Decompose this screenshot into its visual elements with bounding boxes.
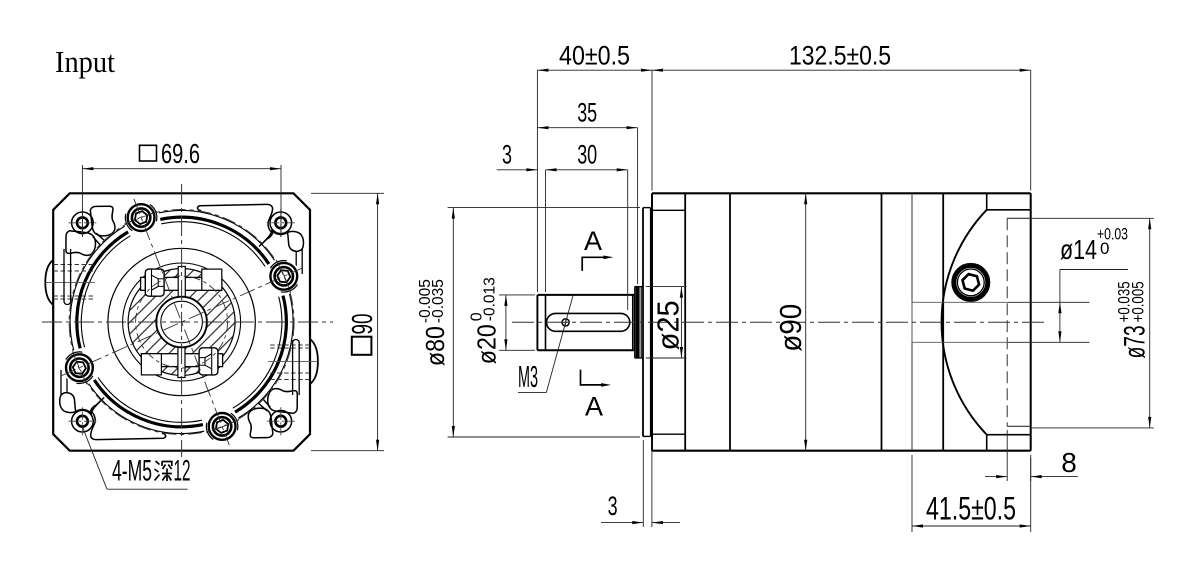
svg-text:ø73: ø73 bbox=[1119, 325, 1152, 358]
top-right corner wing pocket bbox=[197, 204, 272, 246]
svg-text:ø20: ø20 bbox=[472, 324, 502, 364]
svg-text:132.5±0.5: 132.5±0.5 bbox=[789, 41, 891, 71]
flange inner step lines bbox=[652, 209, 685, 211]
top-right corner hole centerlines bbox=[267, 222, 295, 224]
svg-text:0: 0 bbox=[1100, 239, 1109, 258]
svg-text:40±0.5: 40±0.5 bbox=[559, 41, 630, 71]
bottom-left corner counterbore bbox=[72, 410, 94, 432]
svg-text:A: A bbox=[585, 392, 603, 422]
keyway slot bbox=[547, 313, 630, 331]
socket screw at -24 deg bbox=[267, 260, 300, 293]
rear pilot spigot dia 73 bbox=[1006, 218, 1008, 426]
right side lug bbox=[311, 340, 318, 384]
dimension dia 90 bbox=[805, 193, 807, 450]
dimension 69.6 square bbox=[81, 165, 83, 237]
svg-text:A: A bbox=[584, 226, 602, 256]
svg-text:M3: M3 bbox=[518, 359, 538, 394]
dimension dia 20 bbox=[499, 294, 535, 296]
svg-text:12: 12 bbox=[174, 455, 191, 488]
bottom-right corner hole centerlines bbox=[267, 420, 295, 422]
bolt circle centerline bbox=[69, 210, 294, 435]
M3 leader line bbox=[546, 296, 573, 393]
dimension dia 14 bbox=[1008, 301, 1090, 303]
socket screw at 68 deg bbox=[206, 410, 239, 443]
dimension 3 (pilot) bbox=[642, 440, 644, 527]
socket screw at 155 deg bbox=[63, 351, 96, 384]
dimension 40±0.5 bbox=[536, 70, 538, 292]
dimension dia 73 bbox=[1031, 217, 1154, 219]
svg-text:ø25: ø25 bbox=[651, 300, 686, 350]
svg-text:ø14: ø14 bbox=[1060, 234, 1097, 265]
rear cover step top bbox=[986, 193, 988, 210]
upper gear key block bbox=[141, 277, 222, 290]
dimension 90 square (right) bbox=[311, 192, 384, 194]
svg-text:4-M5: 4-M5 bbox=[112, 455, 152, 488]
shaft end face lines bbox=[632, 295, 634, 350]
inner bore circle bbox=[161, 301, 203, 343]
M3 tapped hole bbox=[562, 319, 569, 326]
svg-text:90: 90 bbox=[347, 314, 379, 335]
left side lug bbox=[45, 261, 52, 305]
diagonal centerlines through screws bbox=[61, 268, 302, 376]
svg-text:Input: Input bbox=[55, 44, 115, 79]
left lug clamp slot bbox=[64, 249, 71, 305]
body section joints bbox=[684, 193, 686, 450]
front view square flange outline bbox=[53, 193, 310, 450]
character shen (depth) bbox=[155, 461, 172, 481]
rear cover step bottom bbox=[986, 435, 988, 451]
bottom-right corner counterbore bbox=[270, 410, 292, 432]
svg-text:3: 3 bbox=[608, 491, 618, 521]
top-right corner M5 hole bbox=[275, 217, 286, 228]
dimension 132.5±0.5 bbox=[1030, 70, 1032, 190]
svg-text:69.6: 69.6 bbox=[161, 138, 200, 169]
right lug clamp slot bbox=[293, 339, 300, 395]
svg-text:ø90: ø90 bbox=[773, 304, 808, 352]
dimension 41.5±0.5 bbox=[911, 455, 913, 532]
horizontal centerline front view bbox=[42, 321, 333, 323]
hatched hub cross-section bbox=[128, 269, 235, 376]
bottom-left corner hole centerlines bbox=[68, 420, 96, 422]
dimension dia 25 bbox=[646, 286, 687, 288]
section marker A bottom bbox=[581, 370, 605, 385]
svg-text:35: 35 bbox=[577, 98, 597, 128]
hub outer circle bbox=[123, 263, 241, 381]
side view centerline bbox=[512, 321, 1045, 323]
hidden bore dia 14 bbox=[912, 301, 1008, 303]
bearing face circle bbox=[108, 248, 255, 395]
input bore circle bbox=[156, 297, 207, 348]
vertical centerline front view bbox=[181, 184, 183, 457]
rear cover curve bbox=[942, 210, 987, 435]
top-right corner counterbore bbox=[270, 212, 292, 234]
side view: output shaft bbox=[536, 295, 538, 350]
pilot boss dia 80 bbox=[642, 208, 644, 437]
bottom-left corner wing pocket bbox=[91, 398, 166, 440]
svg-text:41.5±0.5: 41.5±0.5 bbox=[926, 491, 1016, 527]
rear mounting screw bbox=[952, 263, 990, 301]
svg-text:-0.013: -0.013 bbox=[482, 277, 499, 321]
dimension 3 (shaft tip) bbox=[497, 169, 538, 171]
bottom-left corner M5 hole bbox=[77, 416, 88, 427]
dimension dia 80 bbox=[448, 207, 640, 209]
bottom-right corner pocket cutouts bbox=[248, 408, 273, 438]
top-left corner M5 hole bbox=[77, 217, 88, 228]
top-left corner pocket cutouts bbox=[90, 206, 115, 236]
top-left corner counterbore bbox=[72, 212, 94, 234]
gearbox body outline bbox=[651, 193, 653, 450]
socket screw at 248 deg bbox=[125, 201, 158, 234]
dimension 30 bbox=[545, 170, 547, 292]
svg-text:ø80: ø80 bbox=[420, 326, 450, 366]
bottom-right corner M5 hole bbox=[275, 416, 286, 427]
dimension 35 bbox=[637, 128, 639, 284]
collar dia 25 bbox=[635, 287, 639, 358]
svg-text:3: 3 bbox=[502, 140, 512, 170]
svg-text:+0.005: +0.005 bbox=[1129, 281, 1148, 322]
dimension 8 bbox=[1006, 430, 1008, 481]
label 4-M5 depth 12 bbox=[82, 425, 107, 489]
outer retaining arcs bbox=[239, 294, 294, 418]
svg-text:-0.035: -0.035 bbox=[430, 279, 447, 323]
svg-text:30: 30 bbox=[577, 140, 597, 170]
top-left corner hole centerlines bbox=[68, 222, 96, 224]
svg-text:8: 8 bbox=[1061, 447, 1077, 478]
lower gear key block bbox=[141, 354, 222, 367]
